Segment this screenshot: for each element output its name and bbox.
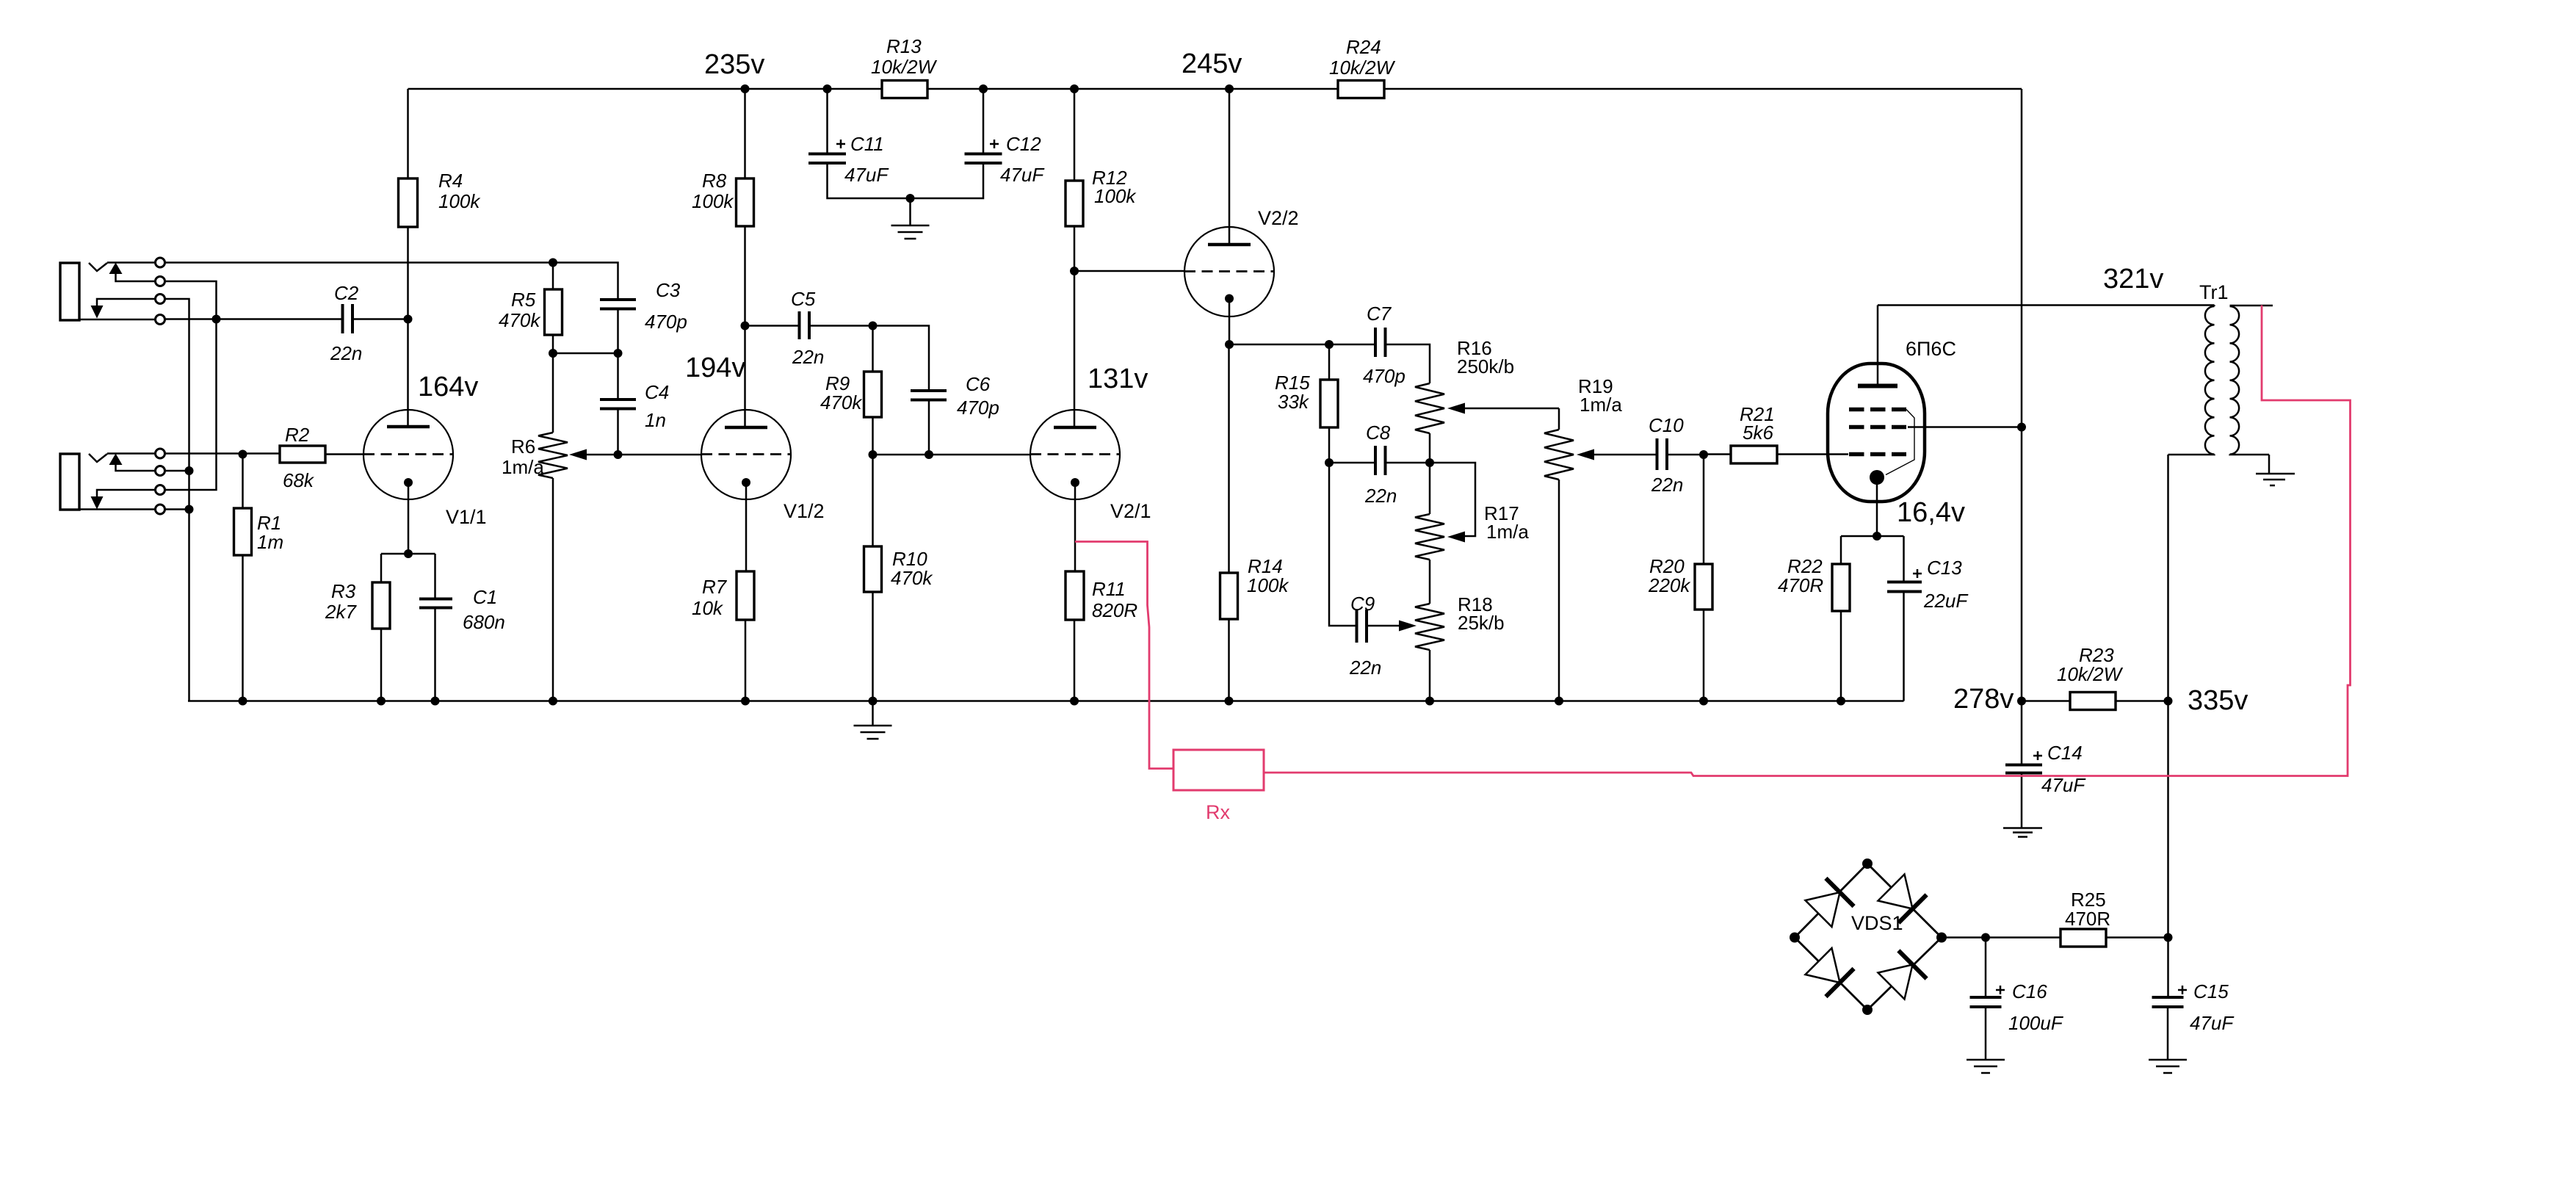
resistor R11: [1066, 571, 1137, 701]
svg-text:194v: 194v: [685, 353, 745, 383]
junction C5 left: [741, 322, 750, 330]
junction rail R8: [741, 84, 750, 93]
svg-text:C13: C13: [1927, 557, 1962, 579]
capacitor C1: [419, 554, 505, 701]
resistor R2: [280, 424, 363, 491]
junction rail C12: [979, 84, 988, 93]
ground symbol under C14: [2003, 828, 2042, 837]
potentiometer R17: [1415, 502, 1529, 604]
svg-text:100k: 100k: [692, 190, 734, 212]
svg-text:R11: R11: [1092, 578, 1126, 600]
wire: C5 row to C6 top: [873, 326, 930, 391]
svg-text:10k/2W: 10k/2W: [871, 56, 938, 78]
resistor R12: [1066, 89, 1137, 427]
svg-text:V1/2: V1/2: [784, 500, 825, 522]
capacitor C4: [600, 353, 669, 455]
junction R9 top: [869, 322, 878, 330]
svg-text:Tr1: Tr1: [2199, 281, 2229, 303]
svg-text:C15: C15: [2193, 980, 2229, 1002]
wire: J1 switch/sleeve net vertical: [165, 281, 217, 490]
svg-text:C2: C2: [334, 282, 359, 304]
svg-text:470k: 470k: [499, 309, 541, 331]
diode VDS1 D2 (top-right): [1878, 875, 1927, 923]
capacitor C11: [808, 89, 911, 198]
wire: 321v plate line to transformer: [1878, 304, 2215, 306]
wire: B+ top rail 235v/245v: [408, 88, 2022, 90]
junction jack ground t2: [185, 466, 194, 475]
svg-text:1n: 1n: [645, 409, 666, 431]
svg-text:820R: 820R: [1092, 599, 1137, 621]
junction R1 top: [239, 450, 247, 459]
svg-text:470R: 470R: [2065, 908, 2110, 930]
junction bus R1: [239, 697, 247, 706]
svg-text:10k/2W: 10k/2W: [1329, 57, 1396, 79]
triode V1/2: [685, 353, 825, 571]
capacitor C7: [1363, 303, 1430, 387]
resistor Rx (pink): [1173, 750, 1264, 790]
junction bus R20: [1699, 697, 1708, 706]
junction bus C1: [431, 697, 440, 706]
potentiometer R6: [502, 433, 618, 701]
svg-text:C14: C14: [2047, 742, 2083, 764]
svg-text:47uF: 47uF: [2190, 1012, 2235, 1034]
svg-text:470R: 470R: [1778, 574, 1823, 596]
svg-text:C3: C3: [656, 279, 681, 301]
svg-text:321v: 321v: [2103, 264, 2163, 294]
junction rail C11: [823, 84, 832, 93]
input jack J2: [60, 449, 165, 514]
junction R15 bottom C8: [1325, 458, 1334, 467]
resistor R4: [399, 89, 482, 427]
junction bus R3: [377, 697, 386, 706]
svg-text:470k: 470k: [820, 391, 863, 413]
output tube 6П6С: [1828, 306, 1965, 537]
junction bridge right: [1936, 933, 1947, 943]
svg-text:R3: R3: [331, 580, 356, 602]
resistor R10: [864, 455, 934, 701]
wire: bridge + output to R25/C15: [1942, 936, 2168, 939]
junction C8 right: [1425, 458, 1434, 467]
wire: V2/1 plate node to V2/2 grid: [1074, 270, 1184, 272]
svg-text:C5: C5: [791, 288, 816, 310]
wire: ground bus: [188, 700, 1904, 702]
svg-text:C11: C11: [850, 133, 884, 155]
svg-text:100k: 100k: [1247, 574, 1289, 596]
svg-text:245v: 245v: [1182, 48, 1242, 79]
capacitor C5: [745, 288, 873, 368]
resistor R9: [820, 326, 882, 455]
junction C2 right: [404, 315, 413, 324]
svg-text:164v: 164v: [418, 372, 478, 402]
junction jack ground t4: [185, 505, 194, 514]
svg-text:C16: C16: [2012, 980, 2047, 1002]
svg-text:R13: R13: [886, 35, 922, 57]
junction bus R10: [869, 697, 878, 706]
junction bus R7: [741, 697, 750, 706]
svg-text:C12: C12: [1006, 133, 1041, 155]
junction screen grid: [2017, 423, 2026, 432]
svg-text:C8: C8: [1366, 422, 1391, 444]
wire: right B+ drop vertical (245v to 278v): [2021, 89, 2023, 701]
diode VDS1 D1 (left-top): [1806, 878, 1854, 927]
wire: V2/1 grid row: [873, 454, 1031, 456]
junction bus R22: [1837, 697, 1845, 706]
svg-text:470p: 470p: [957, 397, 999, 419]
svg-text:C7: C7: [1367, 303, 1392, 325]
potentiometer R16: [1415, 337, 1559, 514]
bridge rectifier VDS1: [1795, 864, 1942, 1010]
wire: 6П6С cathode junction row: [1841, 535, 1904, 538]
svg-text:100k: 100k: [1094, 185, 1137, 207]
svg-text:1m: 1m: [257, 531, 283, 553]
junction 335v: [2164, 697, 2173, 706]
wire: R6 wiper to V1/2 grid: [618, 454, 702, 456]
triode V1/1: [363, 372, 487, 554]
svg-text:22n: 22n: [792, 346, 824, 368]
junction bus R11: [1070, 697, 1079, 706]
junction C11/C12 ground: [906, 194, 915, 203]
capacitor C10: [1649, 414, 1704, 496]
junction R6 wiper: [614, 450, 623, 459]
wire: feedback tap at V2/1 cathode (pink): [1075, 542, 1173, 769]
potentiometer R18: [1415, 593, 1505, 701]
svg-text:680n: 680n: [463, 611, 505, 633]
svg-text:335v: 335v: [2188, 685, 2248, 716]
wire: Tr1 primary return to 335v node: [2167, 455, 2169, 997]
svg-text:1m/a: 1m/a: [502, 456, 544, 478]
wire: J1 tip to grid rail of V1/1 (to R5/C3): [165, 263, 618, 300]
ground symbol under C11/C12: [891, 198, 930, 239]
wire: V2/2 cathode row to C7: [1229, 344, 1375, 346]
ground symbol under C15: [2149, 1060, 2187, 1073]
junction R9 bottom: [869, 450, 878, 459]
junction R5/C3 row left: [549, 349, 557, 358]
resistor R20: [1648, 455, 1712, 701]
junction C2 left: [212, 315, 221, 324]
junction R15 top: [1325, 340, 1334, 349]
ground symbol at Tr1 secondary: [2256, 455, 2295, 485]
svg-text:Rx: Rx: [1206, 801, 1230, 823]
capacitor C16: [1970, 938, 2064, 1060]
junction V1/1 cathode: [404, 549, 413, 558]
svg-text:R2: R2: [285, 424, 310, 446]
svg-text:47uF: 47uF: [2041, 774, 2086, 796]
resistor R24: [1329, 36, 1396, 98]
junction bridge top: [1862, 859, 1873, 869]
svg-text:VDS1: VDS1: [1851, 912, 1903, 934]
wire: R5/C3 lower junction row: [553, 353, 618, 355]
junction bus R19: [1555, 697, 1563, 706]
wire: V1/1 cathode junction: [381, 553, 435, 555]
resistor R22: [1778, 536, 1850, 701]
svg-text:220k: 220k: [1648, 574, 1691, 596]
svg-text:C6: C6: [966, 373, 991, 395]
svg-text:100uF: 100uF: [2008, 1012, 2064, 1034]
junction rail R12: [1070, 84, 1079, 93]
resistor R25: [2061, 889, 2110, 947]
junction 6П6С cathode row: [1873, 532, 1881, 541]
svg-text:33k: 33k: [1278, 391, 1310, 413]
capacitor C6: [911, 373, 999, 455]
wire: 6П6С screen grid to 245v rail: [1908, 426, 2022, 428]
capacitor C9: [1329, 463, 1417, 679]
capacitor C2: [330, 282, 408, 364]
svg-text:C10: C10: [1649, 414, 1684, 436]
svg-text:68k: 68k: [283, 469, 315, 491]
svg-text:470p: 470p: [645, 311, 687, 333]
svg-text:470k: 470k: [891, 567, 933, 589]
svg-text:22uF: 22uF: [1923, 590, 1969, 612]
wire: Rx to output secondary (pink): [1264, 306, 2351, 776]
junction R25 right: [2164, 933, 2173, 942]
junction bridge left: [1790, 933, 1800, 943]
ground symbol under C16: [1967, 1060, 2005, 1073]
junction V2/2 cathode row left: [1225, 340, 1234, 349]
junction R5 top: [549, 259, 557, 267]
svg-text:R5: R5: [511, 289, 536, 311]
svg-text:10k: 10k: [692, 597, 724, 619]
wire: J2 ring/sleeve to ground vertical: [165, 471, 189, 510]
capacitor C15: [2152, 980, 2235, 1060]
svg-text:1m/a: 1m/a: [1486, 521, 1529, 543]
svg-text:6П6С: 6П6С: [1906, 338, 1956, 360]
resistor R13: [871, 35, 938, 98]
capacitor C12: [911, 89, 1046, 198]
wire: J1 ring contact to ground vertical: [165, 299, 189, 701]
svg-text:47uF: 47uF: [1000, 164, 1045, 186]
resistor R8: [692, 89, 754, 427]
diode VDS1 D4 (bottom-right): [1878, 950, 1927, 999]
svg-text:131v: 131v: [1088, 364, 1148, 394]
junction bus R18: [1425, 697, 1434, 706]
resistor R14: [1220, 344, 1290, 701]
svg-text:10k/2W: 10k/2W: [2057, 663, 2124, 685]
svg-text:2k7: 2k7: [325, 601, 357, 623]
svg-text:470p: 470p: [1363, 365, 1405, 387]
capacitor C8: [1329, 422, 1430, 507]
svg-text:V1/1: V1/1: [446, 506, 487, 528]
capacitor C3: [600, 279, 687, 353]
ground symbol under bus at R10: [854, 701, 892, 740]
svg-text:R8: R8: [702, 170, 727, 192]
svg-text:22n: 22n: [1349, 657, 1381, 679]
svg-text:C4: C4: [645, 381, 669, 403]
wire: J1 sleeve to C2: [165, 318, 343, 320]
svg-text:R4: R4: [438, 170, 463, 192]
wire: J2 tip to R2: [165, 452, 281, 455]
triode V2/1: [1030, 364, 1151, 571]
svg-text:R24: R24: [1346, 36, 1381, 58]
resistor R3: [325, 554, 390, 701]
junction bus R14: [1225, 697, 1234, 706]
svg-text:47uF: 47uF: [844, 164, 889, 186]
junction C16 top: [1981, 933, 1990, 942]
potentiometer R19: [1544, 375, 1657, 701]
svg-text:R6: R6: [511, 435, 535, 458]
resistor R7: [692, 571, 754, 701]
svg-text:R7: R7: [702, 576, 728, 598]
svg-text:235v: 235v: [704, 49, 764, 80]
svg-text:C1: C1: [473, 586, 497, 608]
resistor R5: [499, 263, 562, 433]
svg-text:22n: 22n: [1651, 474, 1683, 496]
resistor R21: [1704, 403, 1848, 463]
svg-text:22n: 22n: [1364, 485, 1397, 507]
capacitor C14: [2005, 701, 2086, 828]
svg-text:C9: C9: [1350, 593, 1375, 615]
svg-text:V2/1: V2/1: [1110, 500, 1151, 522]
junction C10 right: [1699, 450, 1708, 459]
svg-text:25k/b: 25k/b: [1458, 612, 1505, 634]
svg-text:278v: 278v: [1953, 684, 2014, 715]
junction rail V2/2 plate 245v: [1225, 84, 1234, 93]
triode V2/2: [1184, 89, 1299, 344]
resistor R1: [234, 455, 284, 701]
svg-text:22n: 22n: [330, 342, 362, 364]
diode VDS1 D3 (left-bottom): [1806, 948, 1854, 997]
resistor R23: [2022, 644, 2168, 710]
svg-text:1m/a: 1m/a: [1580, 394, 1622, 416]
junction bus R6: [549, 697, 557, 706]
junction C6 bottom: [925, 450, 933, 459]
transformer Tr1: [2168, 281, 2273, 455]
svg-text:16,4v: 16,4v: [1897, 497, 1965, 528]
junction V2/1 plate to V2/2 grid: [1070, 267, 1079, 275]
svg-text:100k: 100k: [438, 190, 481, 212]
junction 278v: [2017, 697, 2026, 706]
svg-text:V2/2: V2/2: [1258, 207, 1299, 229]
resistor R15: [1275, 344, 1338, 463]
wire: C8 to R17 wiper: [1430, 463, 1475, 536]
input jack J1: [60, 258, 165, 325]
svg-text:250k/b: 250k/b: [1457, 355, 1514, 377]
junction bridge bottom: [1862, 1005, 1873, 1015]
capacitor C13: [1887, 536, 1969, 701]
junction R5/C3 row right: [614, 349, 623, 358]
svg-text:5k6: 5k6: [1743, 422, 1773, 444]
